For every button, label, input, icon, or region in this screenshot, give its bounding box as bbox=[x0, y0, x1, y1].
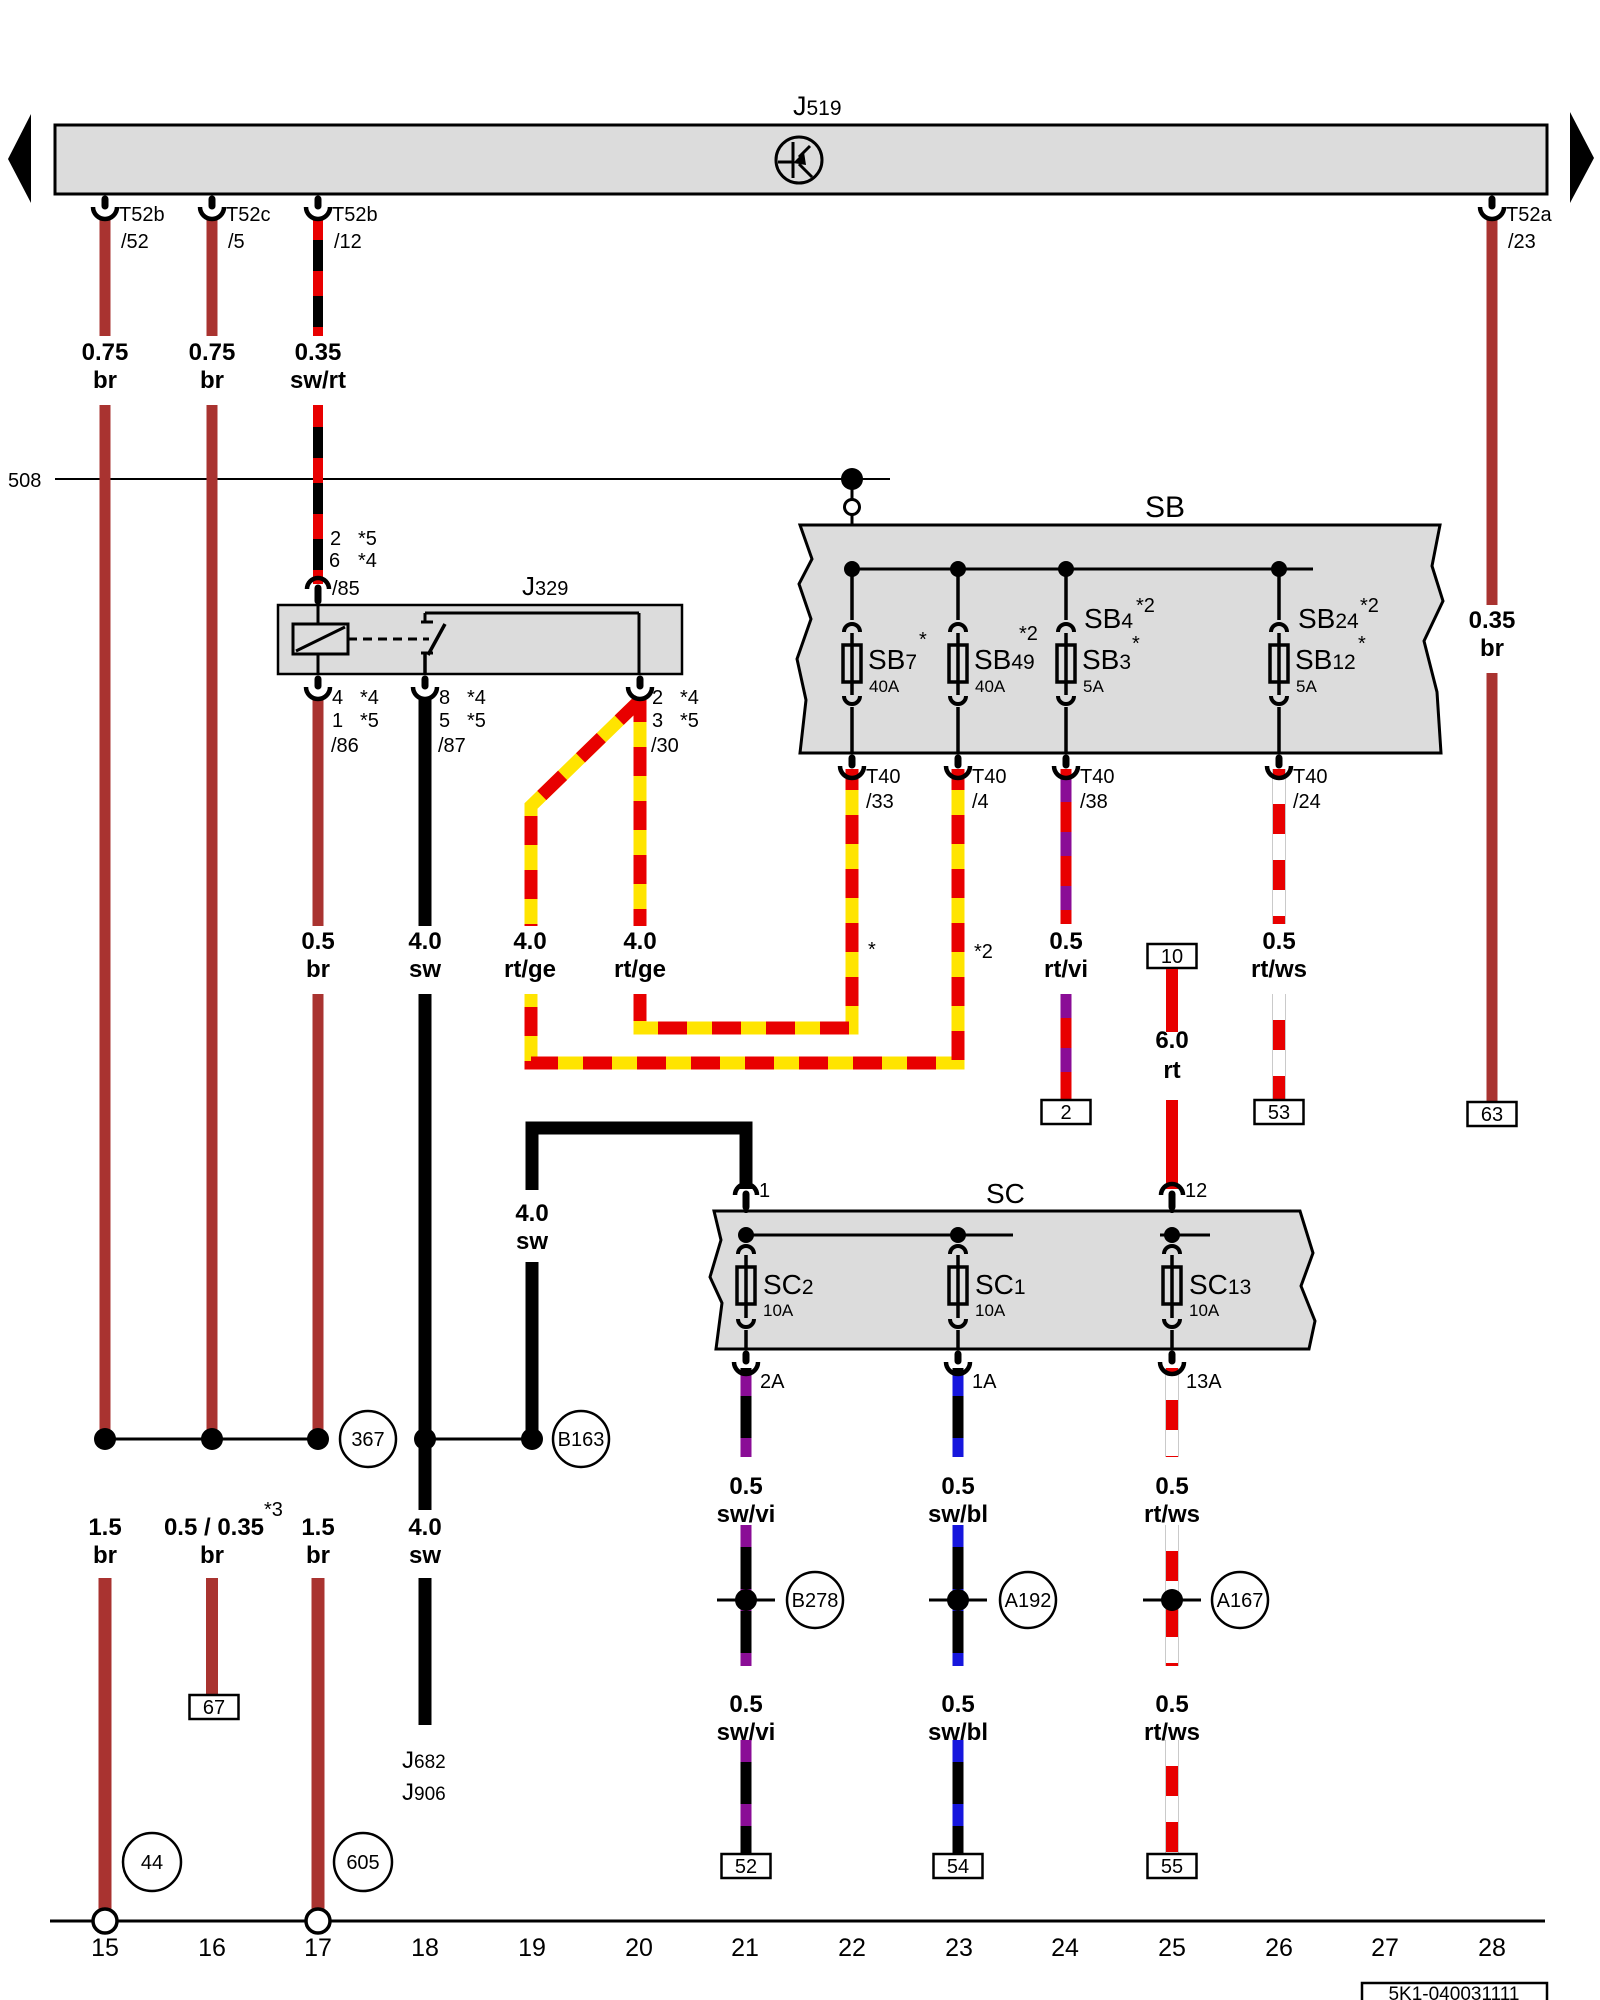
svg-text:5: 5 bbox=[439, 710, 450, 732]
svg-text:52: 52 bbox=[735, 1856, 757, 1878]
SC busbar node 1 bbox=[738, 1227, 754, 1243]
connector T40/33 bbox=[849, 758, 856, 765]
svg-text:0.35: 0.35 bbox=[295, 339, 342, 366]
svg-text:27: 27 bbox=[1371, 1934, 1399, 1962]
wire 6.0 rt upper bbox=[1166, 969, 1178, 1032]
svg-text:1: 1 bbox=[759, 1180, 770, 1202]
SB busbar node 4 bbox=[1271, 561, 1287, 577]
ground terminal wire17 bbox=[306, 1909, 330, 1933]
svg-text:67: 67 bbox=[203, 1697, 225, 1719]
svg-text:rt: rt bbox=[1163, 1057, 1180, 1084]
svg-text:T40: T40 bbox=[1293, 766, 1327, 788]
wire stub to SB bbox=[851, 479, 854, 500]
junction node wire18 bbox=[414, 1428, 436, 1450]
svg-text:0.75: 0.75 bbox=[189, 339, 236, 366]
circle label 605 bbox=[334, 1833, 392, 1891]
wire 4.0 rt/ge A diagonal+vertical from relay /30 bbox=[531, 700, 640, 926]
ground terminal wire15 bbox=[93, 1909, 117, 1933]
svg-text:sw: sw bbox=[409, 1542, 441, 1569]
svg-text:22: 22 bbox=[838, 1934, 866, 1962]
svg-text:rt/ge: rt/ge bbox=[614, 956, 666, 983]
wire 28 brown lower bbox=[1487, 673, 1498, 1102]
svg-text:SB: SB bbox=[1145, 491, 1185, 524]
terminal box 2 bbox=[1042, 1100, 1091, 1124]
svg-text:B278: B278 bbox=[792, 1590, 839, 1612]
svg-text:/23: /23 bbox=[1508, 231, 1536, 253]
junction wire B163 row bbox=[425, 1438, 532, 1441]
circle label 44 bbox=[123, 1833, 181, 1891]
connector /30 on relay bbox=[637, 679, 644, 686]
svg-text:rt/ws: rt/ws bbox=[1144, 1501, 1200, 1528]
svg-text:*4: *4 bbox=[358, 550, 377, 572]
svg-text:367: 367 bbox=[351, 1429, 384, 1451]
svg-text:sw/rt: sw/rt bbox=[290, 367, 346, 394]
svg-text:0.5: 0.5 bbox=[729, 1473, 762, 1500]
wire 28 brown upper bbox=[1487, 218, 1498, 605]
wire 17 black/red lower segment bbox=[313, 405, 323, 584]
svg-text:sw: sw bbox=[516, 1228, 548, 1255]
terminal box 52 bbox=[722, 1854, 771, 1878]
svg-text:1.5: 1.5 bbox=[88, 1514, 121, 1541]
connector 1 on SC bbox=[735, 1184, 757, 1195]
wire 4.0 rt/ge B lower L to fuse SB7 bbox=[640, 769, 852, 1028]
wire 4.0 sw lower segment bbox=[419, 1578, 432, 1725]
svg-text:10A: 10A bbox=[1189, 1301, 1220, 1320]
relay internal wire to pin 2 bbox=[425, 612, 639, 615]
svg-text:rt/ws: rt/ws bbox=[1251, 956, 1307, 983]
SC busbar 2 bbox=[1160, 1234, 1210, 1237]
connector T52b/52 bbox=[102, 199, 109, 206]
svg-text:5K1-040031111: 5K1-040031111 bbox=[1388, 1984, 1519, 2000]
wire 0.5 sw/vi seg3 bbox=[741, 1740, 752, 1854]
svg-text:26: 26 bbox=[1265, 1934, 1293, 1962]
wire 0.5 br from relay /86 upper bbox=[313, 698, 324, 926]
svg-text:SC: SC bbox=[986, 1178, 1025, 1209]
svg-text:br: br bbox=[93, 367, 117, 394]
svg-text:25: 25 bbox=[1158, 1934, 1186, 1962]
wire 0.5 br from relay /86 lower bbox=[313, 994, 324, 1439]
wire 16 brown lower segment bbox=[206, 1578, 218, 1696]
connector T40/24 bbox=[1276, 758, 1283, 765]
junction node wire17 bbox=[307, 1428, 329, 1450]
svg-text:*: * bbox=[1132, 633, 1140, 655]
svg-text:1A: 1A bbox=[972, 1371, 997, 1393]
wire 0.5 rt/ws seg3 bbox=[1165, 1740, 1179, 1854]
svg-text:0.5: 0.5 bbox=[729, 1691, 762, 1718]
svg-text:*2: *2 bbox=[1360, 595, 1379, 617]
relay J329 box bbox=[278, 605, 682, 674]
svg-text:0.75: 0.75 bbox=[82, 339, 129, 366]
svg-text:4: 4 bbox=[332, 687, 343, 709]
connector 1A bbox=[955, 1354, 962, 1361]
svg-text:/30: /30 bbox=[651, 735, 679, 757]
svg-text:4.0: 4.0 bbox=[408, 1514, 441, 1541]
svg-text:/4: /4 bbox=[972, 791, 989, 813]
page continuation arrow right bbox=[1570, 112, 1594, 203]
svg-text:23: 23 bbox=[945, 1934, 973, 1962]
connector 13A bbox=[1169, 1354, 1176, 1361]
svg-text:br: br bbox=[306, 1542, 330, 1569]
control module J519 box bbox=[55, 125, 1547, 194]
svg-text:rt/ge: rt/ge bbox=[504, 956, 556, 983]
svg-text:605: 605 bbox=[346, 1852, 379, 1874]
wire 1.5 br wire17 lower bbox=[312, 1578, 325, 1909]
svg-text:6: 6 bbox=[329, 550, 340, 572]
svg-text:44: 44 bbox=[141, 1852, 163, 1874]
fuse SB49 40A bbox=[956, 569, 960, 620]
wire 4.0 rt/ge A lower L to fuse SB49 bbox=[531, 769, 958, 1063]
fuse SB12 5A bbox=[1277, 569, 1281, 620]
terminal box 55 bbox=[1148, 1854, 1197, 1878]
wire 4.0 sw U-shape lower bbox=[526, 1262, 539, 1439]
wire 17 black/red upper segment bbox=[313, 218, 323, 336]
svg-text:19: 19 bbox=[518, 1934, 546, 1962]
svg-text:0.5 / 0.35: 0.5 / 0.35 bbox=[164, 1514, 264, 1541]
svg-text:0.5: 0.5 bbox=[1262, 928, 1295, 955]
connector T52a/23 bbox=[1489, 199, 1496, 206]
fuse box SB bbox=[797, 525, 1443, 753]
svg-text:24: 24 bbox=[1051, 1934, 1079, 1962]
svg-text:T52c: T52c bbox=[226, 204, 270, 226]
svg-text:/86: /86 bbox=[331, 735, 359, 757]
svg-text:5A: 5A bbox=[1296, 677, 1317, 696]
svg-text:*2: *2 bbox=[1136, 595, 1155, 617]
J519 internal connection arrow symbol bbox=[776, 137, 822, 183]
svg-text:10: 10 bbox=[1161, 946, 1183, 968]
svg-text:4.0: 4.0 bbox=[408, 928, 441, 955]
connector /86 on relay bbox=[315, 679, 322, 686]
svg-text:T40: T40 bbox=[972, 766, 1006, 788]
SC busbar 1 bbox=[746, 1234, 1013, 1237]
svg-text:0.5: 0.5 bbox=[941, 1473, 974, 1500]
svg-text:br: br bbox=[306, 956, 330, 983]
svg-text:*5: *5 bbox=[360, 710, 379, 732]
wire into SB busbar bbox=[851, 514, 854, 569]
svg-text:6.0: 6.0 bbox=[1155, 1027, 1188, 1054]
svg-text:2: 2 bbox=[330, 528, 341, 550]
svg-text:4.0: 4.0 bbox=[623, 928, 656, 955]
svg-text:*2: *2 bbox=[1019, 623, 1038, 645]
fuse SC2 10A bbox=[744, 1235, 748, 1242]
diagram number box bbox=[1362, 1983, 1547, 2000]
connector T52c/5 bbox=[209, 199, 216, 206]
fuse SB7 40A bbox=[850, 569, 854, 620]
svg-text:B163: B163 bbox=[558, 1429, 605, 1451]
svg-text:br: br bbox=[93, 1542, 117, 1569]
junction node wire16 bbox=[201, 1428, 223, 1450]
svg-text:T52a: T52a bbox=[1506, 204, 1552, 226]
fuse SB3 5A bbox=[1064, 569, 1068, 620]
svg-text:20: 20 bbox=[625, 1934, 653, 1962]
SB busbar node 2 bbox=[950, 561, 966, 577]
svg-text:2: 2 bbox=[652, 687, 663, 709]
svg-text:J682: J682 bbox=[402, 1747, 446, 1774]
svg-text:54: 54 bbox=[947, 1856, 969, 1878]
svg-text:*: * bbox=[868, 939, 876, 961]
svg-text:T40: T40 bbox=[1080, 766, 1114, 788]
svg-text:1.5: 1.5 bbox=[301, 1514, 334, 1541]
SC busbar node 3 bbox=[1164, 1227, 1180, 1243]
terminal box 54 bbox=[934, 1854, 983, 1878]
wire 0.5 rt/ws lower bbox=[1272, 994, 1286, 1100]
svg-text:2A: 2A bbox=[760, 1371, 785, 1393]
svg-text:*4: *4 bbox=[360, 687, 379, 709]
svg-text:/33: /33 bbox=[866, 791, 894, 813]
svg-text:13A: 13A bbox=[1186, 1371, 1222, 1393]
svg-text:508: 508 bbox=[8, 470, 41, 492]
terminal box 63 bbox=[1468, 1102, 1517, 1126]
connector 2A bbox=[743, 1354, 750, 1361]
bottom rail line bbox=[50, 1920, 1545, 1923]
SB busbar node 1 bbox=[844, 561, 860, 577]
wire 15 brown middle segment bbox=[100, 405, 111, 1439]
wire 16 brown upper segment bbox=[207, 218, 218, 336]
svg-text:br: br bbox=[200, 367, 224, 394]
svg-text:1: 1 bbox=[332, 710, 343, 732]
svg-text:0.5: 0.5 bbox=[1155, 1691, 1188, 1718]
wire 0.5 sw/vi seg1 bbox=[741, 1368, 752, 1457]
svg-text:/24: /24 bbox=[1293, 791, 1321, 813]
svg-text:40A: 40A bbox=[869, 677, 900, 696]
svg-text:sw/vi: sw/vi bbox=[717, 1501, 776, 1528]
circle label 367 bbox=[340, 1411, 396, 1467]
wire 4.0 sw from relay /87 upper bbox=[419, 698, 432, 926]
circle label B163 bbox=[553, 1411, 609, 1467]
svg-text:/12: /12 bbox=[334, 231, 362, 253]
svg-text:*5: *5 bbox=[467, 710, 486, 732]
svg-text:/85: /85 bbox=[332, 578, 360, 600]
junction A192 bbox=[947, 1589, 969, 1611]
svg-text:0.5: 0.5 bbox=[1155, 1473, 1188, 1500]
wire 0.5 rt/ws upper bbox=[1272, 769, 1286, 924]
svg-text:/38: /38 bbox=[1080, 791, 1108, 813]
wire 4.0 sw middle bbox=[419, 994, 432, 1510]
SB busbar node 3 bbox=[1058, 561, 1074, 577]
svg-text:*2: *2 bbox=[974, 941, 993, 963]
wire 6.0 rt lower bbox=[1166, 1100, 1178, 1189]
svg-text:15: 15 bbox=[91, 1934, 119, 1962]
wire 4.0 rt/ge B vertical from relay /30 bbox=[634, 698, 647, 926]
svg-text:4.0: 4.0 bbox=[513, 928, 546, 955]
circle label A167 bbox=[1212, 1572, 1268, 1628]
wire 15 brown lower segment bbox=[99, 1578, 112, 1909]
wire 0.5 sw/vi seg2 bbox=[741, 1525, 752, 1666]
svg-text:*: * bbox=[919, 629, 927, 651]
connector T52b/12 bbox=[315, 199, 322, 206]
relay coil bbox=[317, 605, 320, 624]
junction node B163 bbox=[521, 1428, 543, 1450]
relay actuation dashed link bbox=[348, 638, 429, 641]
connector T40/4 bbox=[955, 758, 962, 765]
svg-text:8: 8 bbox=[439, 687, 450, 709]
junction node on line 508 bbox=[841, 468, 863, 490]
svg-text:3: 3 bbox=[652, 710, 663, 732]
svg-text:br: br bbox=[200, 1542, 224, 1569]
svg-text:T52b: T52b bbox=[119, 204, 165, 226]
svg-text:sw/bl: sw/bl bbox=[928, 1501, 988, 1528]
svg-text:/5: /5 bbox=[228, 231, 245, 253]
svg-text:*3: *3 bbox=[264, 1499, 283, 1521]
wire 4.0 sw U-shape upper bbox=[532, 1128, 746, 1190]
terminal box 67 bbox=[190, 1695, 239, 1719]
SC busbar node 2 bbox=[950, 1227, 966, 1243]
svg-text:*5: *5 bbox=[680, 710, 699, 732]
svg-text:J906: J906 bbox=[402, 1779, 446, 1806]
circle label A192 bbox=[1000, 1572, 1056, 1628]
svg-text:/52: /52 bbox=[121, 231, 149, 253]
svg-text:0.5: 0.5 bbox=[301, 928, 334, 955]
svg-text:*4: *4 bbox=[467, 687, 486, 709]
fuse SC1 10A bbox=[956, 1235, 960, 1242]
svg-text:br: br bbox=[1480, 635, 1504, 662]
svg-text:A192: A192 bbox=[1005, 1590, 1052, 1612]
svg-text:40A: 40A bbox=[975, 677, 1006, 696]
svg-text:rt/vi: rt/vi bbox=[1044, 956, 1088, 983]
junction node wire15 bbox=[94, 1428, 116, 1450]
junction line 508 bbox=[55, 478, 890, 480]
wire 0.5 rt/ws seg1 bbox=[1165, 1368, 1179, 1457]
fuse box SC bbox=[710, 1211, 1315, 1349]
svg-text:0.35: 0.35 bbox=[1469, 607, 1516, 634]
SB busbar bbox=[852, 568, 1313, 571]
svg-text:0.5: 0.5 bbox=[941, 1691, 974, 1718]
wire 16 brown middle segment bbox=[207, 405, 218, 1439]
terminal box 53 bbox=[1255, 1100, 1304, 1124]
svg-text:A167: A167 bbox=[1217, 1590, 1264, 1612]
junction A167 bbox=[1161, 1589, 1183, 1611]
connector open circle above SB bbox=[845, 500, 860, 515]
svg-text:63: 63 bbox=[1481, 1104, 1503, 1126]
junction wire 367 row bbox=[105, 1438, 318, 1441]
svg-text:sw: sw bbox=[409, 956, 441, 983]
terminal box 10 bbox=[1148, 944, 1197, 968]
wire 0.5 rt/vi upper bbox=[1061, 769, 1072, 924]
wire 15 brown upper segment bbox=[100, 218, 111, 336]
svg-text:10A: 10A bbox=[763, 1301, 794, 1320]
wire 0.5 rt/vi lower bbox=[1061, 994, 1072, 1100]
svg-text:53: 53 bbox=[1268, 1102, 1290, 1124]
circle label B278 bbox=[787, 1572, 843, 1628]
wire 0.5 rt/ws seg2 bbox=[1165, 1525, 1179, 1666]
fuse SC13 10A bbox=[1170, 1235, 1174, 1242]
connector /85 on relay J329 bbox=[307, 578, 329, 589]
svg-text:T40: T40 bbox=[866, 766, 900, 788]
svg-text:55: 55 bbox=[1161, 1856, 1183, 1878]
svg-text:T52b: T52b bbox=[332, 204, 378, 226]
svg-text:28: 28 bbox=[1478, 1934, 1506, 1962]
relay switch contact bbox=[423, 653, 427, 674]
svg-text:2: 2 bbox=[1060, 1102, 1071, 1124]
svg-text:5A: 5A bbox=[1083, 677, 1104, 696]
svg-text:18: 18 bbox=[411, 1934, 439, 1962]
junction B278 bbox=[735, 1589, 757, 1611]
connector /87 on relay bbox=[422, 679, 429, 686]
wire 0.5 sw/bl seg3 bbox=[953, 1740, 964, 1854]
connector T40/38 bbox=[1063, 758, 1070, 765]
svg-text:0.5: 0.5 bbox=[1049, 928, 1082, 955]
svg-text:*: * bbox=[1358, 633, 1366, 655]
svg-text:17: 17 bbox=[304, 1934, 332, 1962]
svg-text:*5: *5 bbox=[358, 528, 377, 550]
svg-text:*4: *4 bbox=[680, 687, 699, 709]
page continuation arrow left bbox=[8, 114, 31, 203]
wire 0.5 sw/bl seg1 bbox=[953, 1368, 964, 1457]
wire 0.5 sw/bl seg2 bbox=[953, 1525, 964, 1666]
svg-text:21: 21 bbox=[731, 1934, 759, 1962]
svg-text:10A: 10A bbox=[975, 1301, 1006, 1320]
connector 12 on SC bbox=[1161, 1184, 1183, 1195]
svg-text:12: 12 bbox=[1185, 1180, 1207, 1202]
svg-text:/87: /87 bbox=[438, 735, 466, 757]
svg-text:16: 16 bbox=[198, 1934, 226, 1962]
svg-text:4.0: 4.0 bbox=[515, 1200, 548, 1227]
